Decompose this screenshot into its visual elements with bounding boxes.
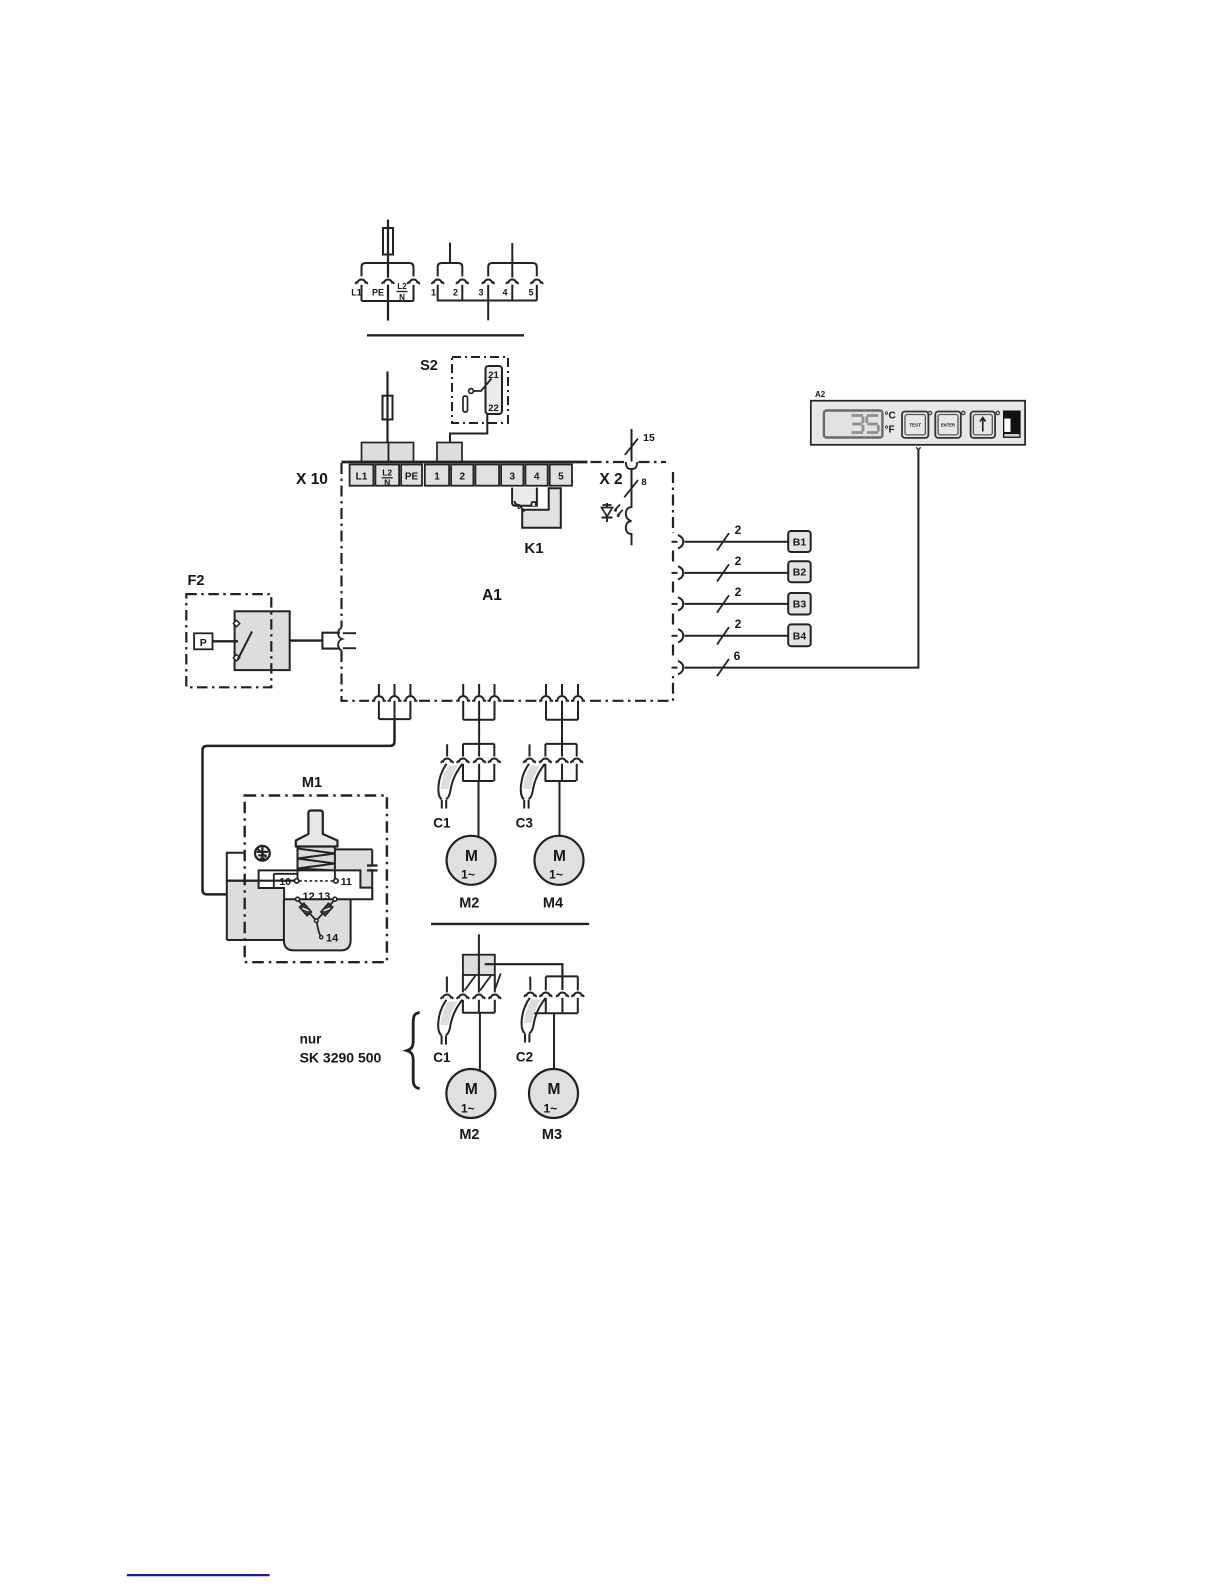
svg-text:M1: M1 — [302, 775, 322, 791]
svg-text:M: M — [547, 1081, 560, 1098]
svg-text:B3: B3 — [793, 599, 807, 611]
svg-text:X 10: X 10 — [296, 471, 328, 488]
svg-text:2: 2 — [453, 288, 458, 298]
svg-text:4: 4 — [502, 288, 507, 298]
svg-text:L1: L1 — [351, 288, 362, 298]
svg-text:C1: C1 — [433, 816, 451, 831]
svg-text:B1: B1 — [793, 537, 807, 549]
svg-text:15: 15 — [643, 432, 655, 444]
svg-text:TEST: TEST — [909, 423, 921, 428]
svg-text:N: N — [399, 293, 405, 302]
svg-text:8: 8 — [641, 477, 646, 488]
svg-text:2: 2 — [735, 585, 742, 599]
svg-text:L2: L2 — [397, 282, 407, 291]
svg-text:22: 22 — [488, 403, 499, 414]
svg-text:SK 3290 500: SK 3290 500 — [300, 1050, 382, 1066]
svg-text:5: 5 — [558, 472, 564, 483]
svg-text:X 2: X 2 — [599, 471, 622, 488]
svg-text:3: 3 — [510, 472, 516, 483]
svg-text:N: N — [384, 478, 390, 488]
svg-text:5: 5 — [528, 288, 533, 298]
svg-text:12: 12 — [303, 891, 315, 903]
svg-text:2: 2 — [460, 472, 466, 483]
svg-text:1~: 1~ — [544, 1102, 558, 1116]
svg-text:1~: 1~ — [461, 868, 475, 882]
svg-text:A1: A1 — [482, 587, 502, 604]
svg-text:P: P — [200, 637, 207, 649]
svg-text:M4: M4 — [543, 896, 563, 912]
svg-text:1~: 1~ — [461, 1102, 475, 1116]
svg-text:ENTER: ENTER — [941, 423, 955, 428]
svg-text:A2: A2 — [815, 390, 826, 399]
svg-text:M: M — [465, 1081, 478, 1098]
svg-text:1: 1 — [431, 288, 436, 298]
svg-text:C1: C1 — [433, 1050, 451, 1065]
svg-text:F2: F2 — [188, 573, 205, 589]
svg-text:1~: 1~ — [549, 868, 563, 882]
svg-text:°C: °C — [885, 411, 896, 422]
svg-text:2: 2 — [735, 617, 742, 631]
svg-text:M3: M3 — [542, 1127, 562, 1143]
svg-text:2: 2 — [735, 554, 742, 568]
svg-text:B2: B2 — [793, 567, 807, 579]
svg-text:PE: PE — [405, 472, 419, 483]
svg-text:M2: M2 — [459, 896, 479, 912]
svg-text:10: 10 — [279, 876, 291, 888]
svg-text:14: 14 — [326, 933, 339, 945]
svg-text:M2: M2 — [459, 1127, 479, 1143]
svg-text:nur: nur — [300, 1032, 322, 1047]
svg-text:°F: °F — [885, 425, 895, 436]
svg-text:L2: L2 — [382, 468, 392, 478]
svg-text:M: M — [553, 848, 566, 865]
svg-text:6: 6 — [734, 649, 741, 663]
svg-text:B4: B4 — [793, 630, 807, 642]
svg-text:4: 4 — [534, 472, 540, 483]
svg-text:K1: K1 — [524, 540, 543, 557]
svg-text:11: 11 — [341, 876, 352, 888]
svg-text:PE: PE — [372, 288, 384, 298]
svg-text:L1: L1 — [356, 472, 368, 483]
svg-text:1: 1 — [434, 472, 440, 483]
svg-text:S2: S2 — [420, 358, 438, 374]
svg-text:3: 3 — [478, 288, 483, 298]
svg-text:C3: C3 — [516, 816, 534, 831]
svg-text:M: M — [465, 848, 478, 865]
svg-text:C2: C2 — [516, 1050, 533, 1065]
svg-text:13: 13 — [318, 891, 330, 903]
svg-text:2: 2 — [735, 523, 742, 537]
